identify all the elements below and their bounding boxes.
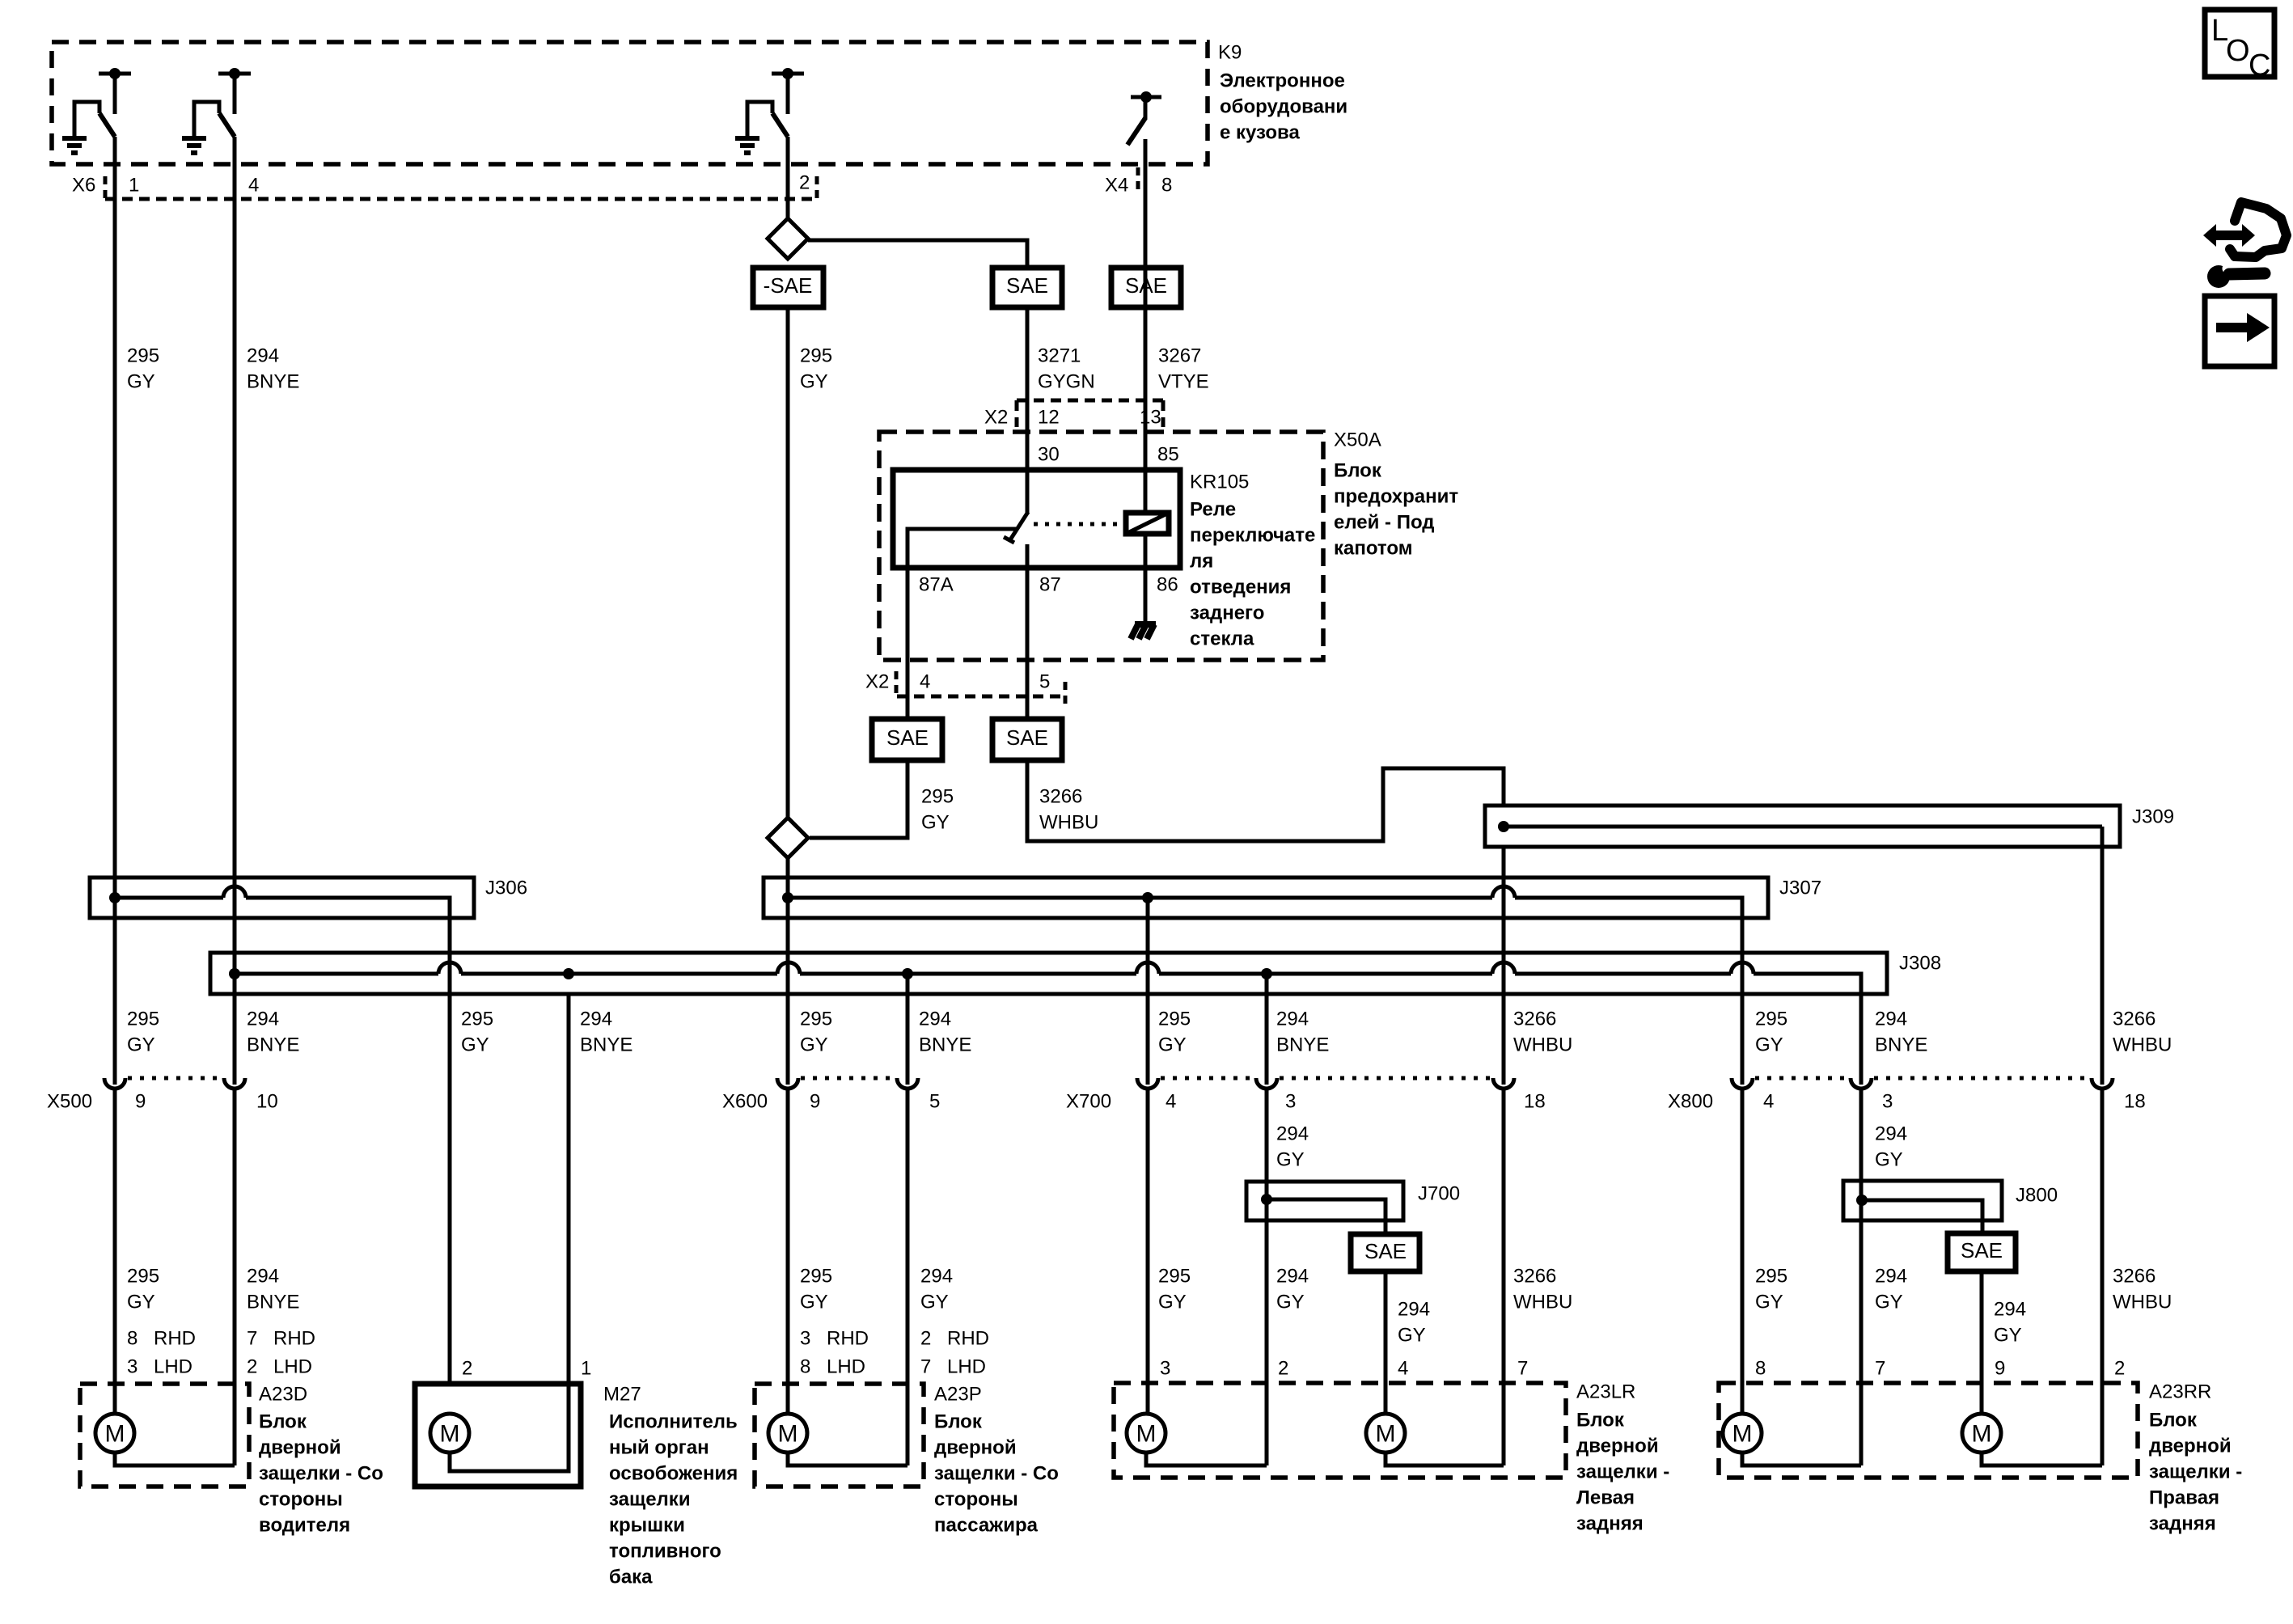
svg-text:WHBU: WHBU xyxy=(2113,1034,2172,1056)
svg-text:защелки -: защелки - xyxy=(2149,1461,2242,1483)
wire X700-3 through J700 to A23LR pin2 xyxy=(1265,1089,1269,1465)
svg-text:водителя: водителя xyxy=(259,1515,350,1537)
svg-text:ный орган: ный орган xyxy=(609,1437,709,1459)
svg-text:SAE: SAE xyxy=(886,725,929,750)
svg-text:2: 2 xyxy=(1278,1358,1288,1380)
wire 3266 WHBU step to J309 xyxy=(1027,760,1504,841)
svg-text:BNYE: BNYE xyxy=(919,1034,971,1056)
J308 junction dot B xyxy=(563,968,574,979)
svg-text:3267: 3267 xyxy=(1158,345,1201,367)
J307 internal bus xyxy=(788,896,1492,900)
svg-text:GY: GY xyxy=(1994,1325,2022,1347)
svg-text:294: 294 xyxy=(1875,1123,1907,1145)
svg-text:294: 294 xyxy=(920,1266,953,1288)
motor M1 A23LR xyxy=(1127,1414,1166,1453)
svg-text:9: 9 xyxy=(135,1091,146,1113)
relay pin30 lead xyxy=(1026,470,1030,514)
J700 junction dot xyxy=(1261,1194,1272,1205)
svg-text:3: 3 xyxy=(1882,1091,1893,1113)
svg-text:3266: 3266 xyxy=(1513,1266,1556,1288)
svg-text:A23RR: A23RR xyxy=(2149,1381,2211,1403)
connector X2 lower dashed bracket xyxy=(897,695,1066,699)
svg-text:BNYE: BNYE xyxy=(1875,1034,1927,1056)
svg-text:5: 5 xyxy=(1039,671,1050,693)
wire 294 BNYE J308 to X600-5 xyxy=(906,974,910,1085)
wire 3266 WHBU below J309 xyxy=(1502,847,1506,1085)
svg-text:предохранит: предохранит xyxy=(1334,486,1458,508)
svg-text:A23P: A23P xyxy=(934,1384,982,1406)
wire 295 GY to M27 pin2 xyxy=(448,918,452,1384)
M27 internal wire xyxy=(450,1384,569,1471)
svg-text:-SAE: -SAE xyxy=(764,273,813,298)
wire 294 BNYE pin4 xyxy=(233,137,237,1085)
svg-text:295: 295 xyxy=(800,1266,832,1288)
svg-text:J800: J800 xyxy=(2016,1185,2058,1207)
svg-text:M: M xyxy=(1136,1421,1157,1448)
svg-text:13: 13 xyxy=(1140,407,1161,429)
svg-text:LHD: LHD xyxy=(947,1356,986,1378)
svg-text:C: C xyxy=(2249,49,2270,82)
J308 junction dot D xyxy=(1261,968,1272,979)
svg-text:X500: X500 xyxy=(47,1091,92,1113)
svg-text:294: 294 xyxy=(1276,1009,1309,1030)
svg-text:X4: X4 xyxy=(1105,175,1128,197)
wire X800-4 to A23RR pin8 xyxy=(1741,1089,1745,1415)
wire X600-5 to A23P xyxy=(906,1089,910,1465)
K9 body electronics module dashed box xyxy=(52,42,1208,164)
svg-text:LHD: LHD xyxy=(827,1356,865,1378)
svg-text:A23LR: A23LR xyxy=(1576,1381,1635,1403)
svg-text:WHBU: WHBU xyxy=(1513,1292,1572,1313)
svg-text:M: M xyxy=(1376,1421,1396,1448)
svg-text:294: 294 xyxy=(919,1009,951,1030)
svg-text:Блок: Блок xyxy=(934,1411,983,1433)
A23RR internal wire 1 xyxy=(1742,1453,1861,1465)
svg-text:GY: GY xyxy=(1755,1034,1783,1056)
svg-text:7: 7 xyxy=(1517,1358,1528,1380)
svg-text:GY: GY xyxy=(1875,1149,1903,1171)
wire 294 GY J700-SAE to A23LR pin4 xyxy=(1384,1271,1388,1415)
svg-text:SAE: SAE xyxy=(1006,725,1048,750)
svg-text:Исполнитель: Исполнитель xyxy=(609,1411,738,1433)
svg-text:M: M xyxy=(105,1421,125,1448)
svg-text:30: 30 xyxy=(1038,444,1060,466)
svg-text:8: 8 xyxy=(127,1328,137,1350)
svg-text:4: 4 xyxy=(1166,1091,1176,1113)
svg-text:M27: M27 xyxy=(603,1384,641,1406)
wire 295 GY pin1 xyxy=(113,137,117,1085)
relay coil xyxy=(1126,513,1169,534)
motor M A23D xyxy=(95,1414,134,1453)
svg-text:3266: 3266 xyxy=(2113,1266,2156,1288)
inline connector -SAE xyxy=(753,268,823,307)
svg-text:Блок: Блок xyxy=(1334,460,1382,482)
svg-text:2: 2 xyxy=(247,1356,257,1378)
inline connector SAE (295) xyxy=(872,719,942,760)
svg-text:295: 295 xyxy=(127,345,159,367)
svg-text:GY: GY xyxy=(127,1292,155,1313)
relay pin87 lead xyxy=(1026,544,1030,719)
wire 295 GY pin2 xyxy=(786,137,790,218)
svg-text:LHD: LHD xyxy=(154,1356,192,1378)
svg-text:Левая: Левая xyxy=(1576,1487,1635,1509)
svg-text:GY: GY xyxy=(1158,1034,1187,1056)
door ajar switch S3 xyxy=(782,68,793,79)
svg-text:18: 18 xyxy=(2124,1091,2146,1113)
splice pack J307 box xyxy=(764,878,1768,918)
svg-text:3: 3 xyxy=(800,1328,810,1350)
J309 junction dot xyxy=(1498,821,1509,832)
svg-text:3271: 3271 xyxy=(1038,345,1081,367)
X50A underhood fuse block dashed box xyxy=(879,432,1323,660)
J308 junction dot A xyxy=(229,968,240,979)
svg-text:X2: X2 xyxy=(865,671,889,693)
svg-text:295: 295 xyxy=(1158,1009,1191,1030)
svg-text:Блок: Блок xyxy=(259,1411,307,1433)
svg-text:294: 294 xyxy=(1276,1266,1309,1288)
svg-text:295: 295 xyxy=(1755,1009,1787,1030)
inline connector SAE (J700) xyxy=(1351,1234,1419,1271)
svg-text:3: 3 xyxy=(1160,1358,1170,1380)
relay coil lead 86 xyxy=(1144,534,1148,624)
wire X800-18 to A23RR pin2 xyxy=(2101,1089,2105,1465)
svg-text:295: 295 xyxy=(800,1009,832,1030)
wire X700-18 to A23LR pin7 xyxy=(1502,1089,1506,1465)
J306 internal bus xyxy=(115,896,223,900)
svg-text:SAE: SAE xyxy=(1006,273,1048,298)
svg-text:GY: GY xyxy=(800,371,828,393)
svg-text:10: 10 xyxy=(256,1091,278,1113)
svg-text:2: 2 xyxy=(799,172,810,194)
svg-text:GY: GY xyxy=(921,812,950,834)
wire 295 GY J307 to X800-4 xyxy=(1741,918,1745,1085)
svg-text:295: 295 xyxy=(1755,1266,1787,1288)
svg-text:J309: J309 xyxy=(2132,806,2174,828)
svg-text:5: 5 xyxy=(929,1091,940,1113)
svg-text:A23D: A23D xyxy=(259,1384,307,1406)
svg-text:BNYE: BNYE xyxy=(247,371,299,393)
svg-text:2: 2 xyxy=(2114,1358,2125,1380)
svg-text:Электронное: Электронное xyxy=(1220,70,1345,92)
splice diamond upper xyxy=(768,218,808,259)
svg-text:елей - Под: елей - Под xyxy=(1334,512,1435,534)
svg-text:294: 294 xyxy=(247,345,279,367)
svg-text:стороны: стороны xyxy=(259,1489,343,1511)
A23D internal wire xyxy=(115,1453,235,1465)
J308 junction dot C xyxy=(902,968,913,979)
relay KR105 box xyxy=(893,470,1180,568)
svg-text:294: 294 xyxy=(1398,1299,1430,1321)
hood ajar switch S4 (X4) xyxy=(1140,91,1152,103)
splice pack J306 box xyxy=(90,878,474,918)
svg-text:BNYE: BNYE xyxy=(247,1034,299,1056)
door ajar switch S1 (driver) xyxy=(109,68,121,79)
svg-text:задняя: задняя xyxy=(1576,1513,1644,1535)
svg-text:8: 8 xyxy=(800,1356,810,1378)
svg-text:4: 4 xyxy=(248,175,259,197)
wire 294 GY J800-SAE to A23RR pin9 xyxy=(1980,1271,1984,1415)
wire X700-4 to A23LR pin3 xyxy=(1146,1089,1150,1415)
J309 internal bus xyxy=(1504,825,2102,829)
door ajar switch S2 xyxy=(229,68,240,79)
svg-text:SAE: SAE xyxy=(1364,1239,1407,1263)
svg-text:GY: GY xyxy=(1158,1292,1187,1313)
svg-text:стороны: стороны xyxy=(934,1489,1018,1511)
connector X2 upper dashed bracket xyxy=(1017,399,1164,403)
A23RR internal wire 2 xyxy=(1982,1453,2102,1465)
A23P internal wire xyxy=(788,1453,907,1465)
motor M1 A23RR xyxy=(1723,1414,1762,1453)
wire 3266 WHBU to X800-18 xyxy=(2101,847,2105,1085)
svg-text:295: 295 xyxy=(461,1009,493,1030)
svg-text:295: 295 xyxy=(921,786,954,808)
svg-text:BNYE: BNYE xyxy=(1276,1034,1329,1056)
svg-text:294: 294 xyxy=(1875,1009,1907,1030)
X4 separator tick xyxy=(1136,167,1140,194)
connector X700 xyxy=(1137,1078,1158,1089)
svg-text:WHBU: WHBU xyxy=(2113,1292,2172,1313)
wire 294 BNYE J308 to X800-3 xyxy=(1859,994,1864,1085)
svg-text:капотом: капотом xyxy=(1334,538,1412,560)
svg-text:GY: GY xyxy=(1276,1292,1305,1313)
J307 junction dot A xyxy=(782,892,793,903)
wire 295 GY J307 to X700-4 xyxy=(1146,898,1150,1085)
svg-text:GY: GY xyxy=(461,1034,489,1056)
svg-text:GY: GY xyxy=(1755,1292,1783,1313)
wire 3267 VTYE from X4 xyxy=(1144,139,1148,513)
connector X600 xyxy=(777,1078,798,1089)
wire 3271 GYGN xyxy=(1026,307,1030,470)
splice pack J800 box xyxy=(1843,1181,2002,1220)
svg-text:защелки -: защелки - xyxy=(1576,1461,1669,1483)
svg-text:294: 294 xyxy=(1994,1299,2026,1321)
svg-text:85: 85 xyxy=(1157,444,1179,466)
A23LR internal wire 2 xyxy=(1386,1453,1504,1465)
splice pack J700 box xyxy=(1246,1182,1403,1220)
connector X500 xyxy=(104,1078,125,1089)
svg-text:стекла: стекла xyxy=(1190,628,1254,650)
svg-text:X6: X6 xyxy=(72,175,95,197)
svg-text:переключате: переключате xyxy=(1190,525,1315,547)
svg-text:4: 4 xyxy=(920,671,930,693)
svg-text:GY: GY xyxy=(800,1034,828,1056)
svg-text:WHBU: WHBU xyxy=(1513,1034,1572,1056)
svg-text:3266: 3266 xyxy=(2113,1009,2156,1030)
J306 junction dot xyxy=(109,892,121,903)
svg-text:BNYE: BNYE xyxy=(247,1292,299,1313)
svg-text:3266: 3266 xyxy=(1513,1009,1556,1030)
wire 295 GY to splice xyxy=(810,760,907,838)
svg-text:RHD: RHD xyxy=(273,1328,315,1350)
wire branch diamond to SAE2 xyxy=(808,240,1027,268)
svg-text:RHD: RHD xyxy=(947,1328,989,1350)
svg-text:9: 9 xyxy=(810,1091,820,1113)
svg-text:O: O xyxy=(2226,34,2250,68)
svg-text:WHBU: WHBU xyxy=(1039,812,1098,834)
wire X500-9 to A23D xyxy=(113,1089,117,1415)
relay contact link dotted xyxy=(1034,522,1124,527)
A23P passenger door latch dashed box xyxy=(755,1384,924,1487)
svg-text:защелки: защелки xyxy=(609,1489,691,1511)
svg-text:заднего: заднего xyxy=(1190,603,1264,624)
next-page arrow box xyxy=(2205,296,2274,366)
svg-text:M: M xyxy=(1732,1421,1753,1448)
splice diamond lower xyxy=(768,818,808,858)
relay armature xyxy=(1009,512,1028,541)
wire 294 BNYE J308 to X700-3 xyxy=(1265,974,1269,1085)
svg-text:задняя: задняя xyxy=(2149,1513,2216,1535)
svg-text:M: M xyxy=(1972,1421,1992,1448)
svg-text:3: 3 xyxy=(1285,1091,1296,1113)
relay 87A contact lead xyxy=(907,529,1016,719)
J800 junction dot xyxy=(1856,1195,1868,1206)
svg-text:294: 294 xyxy=(580,1009,612,1030)
svg-text:дверной: дверной xyxy=(934,1437,1017,1459)
inline connector SAE (3266) xyxy=(992,719,1062,760)
svg-text:пассажира: пассажира xyxy=(934,1515,1039,1537)
motor M2 A23RR xyxy=(1962,1414,2001,1453)
svg-text:18: 18 xyxy=(1524,1091,1546,1113)
svg-text:K9: K9 xyxy=(1218,42,1242,64)
svg-text:RHD: RHD xyxy=(154,1328,196,1350)
svg-text:2: 2 xyxy=(920,1328,931,1350)
connector X800 xyxy=(1732,1078,1753,1089)
svg-text:1: 1 xyxy=(581,1358,591,1380)
svg-text:J307: J307 xyxy=(1779,878,1821,899)
svg-text:бака: бака xyxy=(609,1567,653,1588)
motor M2 A23LR xyxy=(1366,1414,1405,1453)
svg-text:крышки: крышки xyxy=(609,1515,685,1537)
wire X600-9 to A23P xyxy=(786,1089,790,1415)
svg-text:X600: X600 xyxy=(722,1091,768,1113)
svg-text:Реле: Реле xyxy=(1190,499,1236,521)
svg-text:7: 7 xyxy=(1875,1358,1885,1380)
svg-text:7: 7 xyxy=(920,1356,931,1378)
svg-text:X700: X700 xyxy=(1066,1091,1111,1113)
svg-text:294: 294 xyxy=(247,1266,279,1288)
svg-text:KR105: KR105 xyxy=(1190,472,1249,493)
inline connector SAE (3271) xyxy=(992,268,1062,307)
svg-text:295: 295 xyxy=(800,345,832,367)
J308 internal bus xyxy=(235,972,438,976)
A23RR right rear door latch dashed box xyxy=(1719,1383,2138,1478)
svg-text:ля: ля xyxy=(1190,551,1213,573)
svg-text:J308: J308 xyxy=(1899,953,1941,975)
svg-text:SAE: SAE xyxy=(1125,273,1167,298)
svg-text:освобожения: освобожения xyxy=(609,1463,738,1485)
svg-text:LHD: LHD xyxy=(273,1356,312,1378)
svg-text:3266: 3266 xyxy=(1039,786,1082,808)
svg-text:86: 86 xyxy=(1157,574,1178,596)
svg-text:87A: 87A xyxy=(919,574,954,596)
A23LR left rear door latch dashed box xyxy=(1114,1383,1566,1478)
wire X800-3 through J800 to A23RR pin7 xyxy=(1859,1089,1864,1465)
svg-text:отведения: отведения xyxy=(1190,577,1291,598)
svg-text:294: 294 xyxy=(1276,1123,1309,1145)
svg-text:Блок: Блок xyxy=(1576,1410,1625,1432)
chassis ground 86 xyxy=(1131,624,1156,639)
svg-text:8: 8 xyxy=(1755,1358,1766,1380)
motor M M27 xyxy=(430,1414,469,1453)
X6 separator tick xyxy=(104,176,108,199)
svg-text:GY: GY xyxy=(1398,1325,1426,1347)
svg-text:GY: GY xyxy=(920,1292,949,1313)
M27 fuel door release actuator box xyxy=(415,1384,581,1487)
A23D driver door latch dashed box xyxy=(80,1384,249,1487)
svg-text:е кузова: е кузова xyxy=(1220,122,1300,144)
harness routing icon xyxy=(2230,202,2287,257)
svg-text:GY: GY xyxy=(127,1034,155,1056)
svg-text:294: 294 xyxy=(247,1009,279,1030)
svg-text:2: 2 xyxy=(462,1358,472,1380)
svg-text:3: 3 xyxy=(127,1356,137,1378)
wire X500-10 to A23D xyxy=(233,1089,237,1465)
svg-text:87: 87 xyxy=(1039,574,1061,596)
svg-text:M: M xyxy=(440,1421,460,1448)
J800 internal bus xyxy=(1862,1200,1982,1233)
svg-text:295: 295 xyxy=(1158,1266,1191,1288)
svg-text:295: 295 xyxy=(127,1009,159,1030)
wire 295 GY diamond segment xyxy=(786,858,790,1085)
splice pack J309 box xyxy=(1485,806,2120,847)
inline connector SAE (J800) xyxy=(1948,1233,2016,1271)
svg-text:топливного: топливного xyxy=(609,1541,721,1563)
inline connector SAE (3267) xyxy=(1111,268,1181,307)
A23LR internal wire 1 xyxy=(1146,1453,1267,1465)
svg-text:J700: J700 xyxy=(1418,1183,1460,1205)
wire 294 BNYE to M27 pin1 xyxy=(567,994,571,1384)
svg-text:дверной: дверной xyxy=(2149,1436,2232,1457)
svg-text:дверной: дверной xyxy=(259,1437,341,1459)
J307 junction dot B xyxy=(1142,892,1153,903)
svg-text:оборудовани: оборудовани xyxy=(1220,96,1347,118)
svg-text:дверной: дверной xyxy=(1576,1436,1659,1457)
svg-text:X50A: X50A xyxy=(1334,429,1381,451)
svg-text:GY: GY xyxy=(1276,1149,1305,1171)
svg-text:295: 295 xyxy=(127,1266,159,1288)
svg-text:4: 4 xyxy=(1763,1091,1774,1113)
svg-text:J306: J306 xyxy=(485,878,527,899)
svg-text:защелки - Со: защелки - Со xyxy=(934,1463,1059,1485)
svg-text:GY: GY xyxy=(800,1292,828,1313)
svg-text:4: 4 xyxy=(1398,1358,1408,1380)
svg-text:SAE: SAE xyxy=(1961,1238,2003,1262)
J700 internal bus xyxy=(1267,1199,1386,1234)
LOC legend box xyxy=(2205,10,2274,77)
svg-text:GY: GY xyxy=(127,371,155,393)
svg-text:M: M xyxy=(778,1421,798,1448)
svg-text:9: 9 xyxy=(1995,1358,2005,1380)
svg-text:12: 12 xyxy=(1038,407,1060,429)
X6 pin2 separator tick xyxy=(815,176,819,199)
svg-text:GYGN: GYGN xyxy=(1038,371,1095,393)
svg-text:8: 8 xyxy=(1161,175,1172,197)
svg-text:1: 1 xyxy=(129,175,139,197)
wire 295 GY below -SAE xyxy=(786,307,790,818)
svg-text:защелки - Со: защелки - Со xyxy=(259,1463,383,1485)
svg-text:RHD: RHD xyxy=(827,1328,869,1350)
svg-text:VTYE: VTYE xyxy=(1158,371,1209,393)
svg-text:294: 294 xyxy=(1875,1266,1907,1288)
svg-text:7: 7 xyxy=(247,1328,257,1350)
splice pack J308 box xyxy=(210,953,1887,994)
svg-text:X2: X2 xyxy=(984,407,1008,429)
svg-text:BNYE: BNYE xyxy=(580,1034,632,1056)
motor M A23P xyxy=(768,1414,807,1453)
connector row X6 dashed line xyxy=(105,197,818,201)
svg-text:Правая: Правая xyxy=(2149,1487,2219,1509)
svg-text:Блок: Блок xyxy=(2149,1410,2198,1432)
